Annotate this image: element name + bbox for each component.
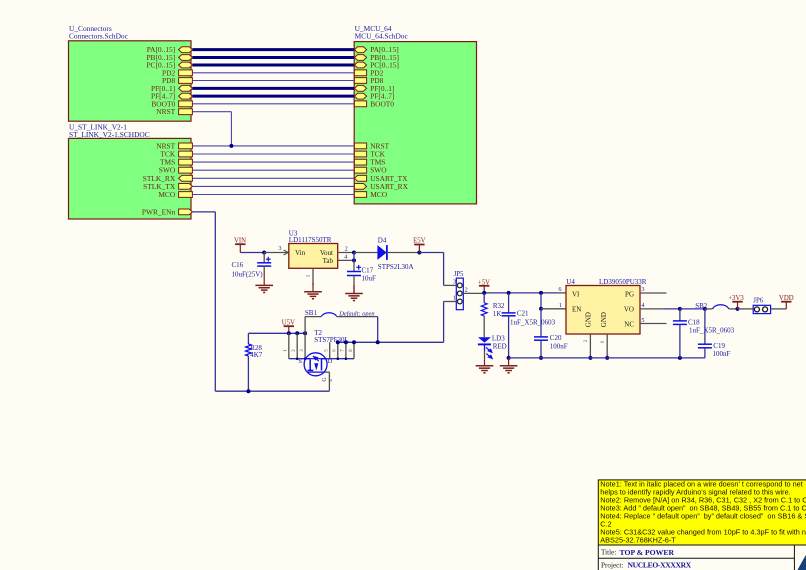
svg-text:MCO: MCO bbox=[370, 190, 388, 199]
svg-text:C17: C17 bbox=[362, 267, 374, 275]
svg-text:PG: PG bbox=[625, 291, 634, 299]
svg-text:E5V: E5V bbox=[413, 237, 426, 244]
svg-text:MCO: MCO bbox=[158, 190, 176, 199]
svg-text:G: G bbox=[322, 377, 328, 382]
svg-text:3: 3 bbox=[641, 286, 644, 293]
svg-text:1uF_X5R_0603: 1uF_X5R_0603 bbox=[689, 326, 735, 334]
svg-text:S: S bbox=[298, 358, 302, 365]
svg-text:C21: C21 bbox=[517, 309, 529, 317]
svg-text:100nF: 100nF bbox=[550, 342, 568, 350]
svg-text:LD1117S50TR: LD1117S50TR bbox=[289, 236, 332, 244]
svg-text:10uF: 10uF bbox=[362, 274, 377, 282]
svg-text:R32: R32 bbox=[493, 302, 505, 310]
svg-text:10uF(25V): 10uF(25V) bbox=[232, 270, 264, 278]
svg-text:5: 5 bbox=[641, 317, 644, 324]
svg-text:TOP & POWER: TOP & POWER bbox=[620, 548, 675, 557]
svg-text:Default: open: Default: open bbox=[338, 311, 374, 318]
svg-text:Connectors.SchDoc: Connectors.SchDoc bbox=[69, 32, 129, 41]
svg-text:Title:: Title: bbox=[601, 549, 616, 557]
svg-text:C16: C16 bbox=[232, 261, 244, 269]
svg-text:6: 6 bbox=[558, 286, 561, 293]
svg-text:2: 2 bbox=[345, 245, 348, 252]
svg-text:STPS2L30A: STPS2L30A bbox=[378, 263, 414, 271]
svg-text:ABS25-32.768KHZ-6-T: ABS25-32.768KHZ-6-T bbox=[600, 536, 676, 545]
svg-text:ST_LINK_V2-1.SCHDOC: ST_LINK_V2-1.SCHDOC bbox=[69, 130, 150, 139]
svg-text:C19: C19 bbox=[713, 342, 725, 350]
svg-text:GND: GND bbox=[585, 312, 593, 327]
svg-text:SB1: SB1 bbox=[305, 309, 318, 317]
svg-text:U4: U4 bbox=[566, 278, 575, 286]
svg-text:VI: VI bbox=[572, 291, 580, 299]
svg-text:LD3: LD3 bbox=[492, 334, 505, 342]
svg-text:3: 3 bbox=[453, 279, 456, 286]
svg-text:GND: GND bbox=[600, 312, 608, 327]
svg-text:NUCLEO-XXXXRX: NUCLEO-XXXXRX bbox=[628, 561, 692, 570]
svg-text:1: 1 bbox=[559, 302, 562, 309]
svg-text:1uF_X5R_0603: 1uF_X5R_0603 bbox=[510, 318, 556, 326]
svg-text:2: 2 bbox=[465, 286, 468, 293]
svg-text:VO: VO bbox=[624, 306, 634, 314]
svg-text:NC: NC bbox=[624, 321, 634, 329]
svg-text:Vout: Vout bbox=[320, 249, 333, 257]
svg-text:Project:: Project: bbox=[601, 562, 623, 570]
svg-text:D4: D4 bbox=[378, 236, 387, 244]
svg-text:4K7: 4K7 bbox=[250, 351, 263, 359]
svg-text:C20: C20 bbox=[550, 334, 562, 342]
svg-text:1: 1 bbox=[453, 295, 456, 302]
svg-text:RED: RED bbox=[493, 342, 507, 350]
svg-text:JP5: JP5 bbox=[454, 271, 464, 278]
svg-text:C18: C18 bbox=[688, 319, 700, 327]
svg-text:JP6: JP6 bbox=[753, 298, 763, 305]
svg-text:LD39050PU33R: LD39050PU33R bbox=[599, 278, 647, 286]
svg-text:1K: 1K bbox=[493, 310, 502, 318]
svg-text:D: D bbox=[328, 358, 333, 365]
svg-text:Tab: Tab bbox=[323, 257, 334, 265]
svg-text:100nF: 100nF bbox=[713, 350, 731, 358]
svg-text:3: 3 bbox=[278, 245, 281, 252]
svg-text:BOOT0: BOOT0 bbox=[370, 99, 394, 108]
svg-text:1: 1 bbox=[305, 274, 311, 277]
svg-text:PWR_ENn: PWR_ENn bbox=[142, 207, 176, 216]
svg-text:EN: EN bbox=[572, 306, 581, 314]
svg-text:MCU_64.SchDoc: MCU_64.SchDoc bbox=[355, 32, 409, 41]
svg-text:NRST: NRST bbox=[156, 107, 175, 116]
svg-text:Note4: Replace ” default open”: Note4: Replace ” default open” by” defau… bbox=[600, 512, 806, 521]
svg-text:Vin: Vin bbox=[295, 249, 306, 257]
